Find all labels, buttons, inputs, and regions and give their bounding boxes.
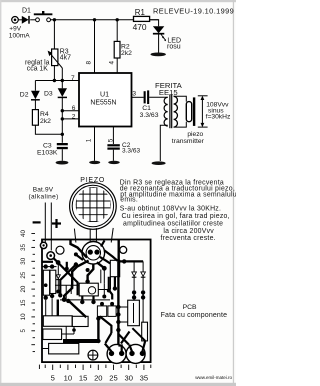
diagonal trace to transistors bbox=[100, 316, 130, 344]
small diode symbol left bbox=[56, 275, 60, 294]
wire pin2 bbox=[62, 118, 79, 120]
svg-text:amplitudinea oscilatiilor cre: amplitudinea oscilatiilor creste bbox=[123, 220, 223, 227]
mounting hole crosshair bbox=[88, 350, 98, 360]
svg-text:+9V: +9V bbox=[9, 26, 21, 33]
wire secondary to piezo top bbox=[174, 96, 187, 101]
pad mid bbox=[74, 262, 78, 266]
piezo disc holder lines bbox=[74, 228, 113, 243]
svg-text:PCB: PCB bbox=[183, 304, 197, 311]
svg-text:5: 5 bbox=[108, 138, 115, 142]
svg-text:(alkaline): (alkaline) bbox=[29, 193, 59, 200]
resistor footprint left B bbox=[50, 270, 56, 316]
switch S1 bbox=[34, 11, 53, 22]
transformer secondary winding bbox=[174, 96, 178, 127]
trace piezo to top edge bbox=[71, 240, 88, 258]
svg-text:Bat.9V: Bat.9V bbox=[33, 186, 54, 193]
svg-text:NE555N: NE555N bbox=[90, 100, 116, 107]
wire R1 to LED bbox=[150, 20, 159, 26]
ground C3 bbox=[56, 161, 69, 165]
svg-text:25: 25 bbox=[109, 373, 117, 382]
ground transformer bbox=[152, 161, 166, 165]
minus sign bbox=[33, 221, 41, 223]
svg-text:40: 40 bbox=[20, 230, 27, 237]
svg-text:2k2: 2k2 bbox=[40, 118, 51, 125]
trace right horizontal bbox=[117, 260, 143, 262]
svg-text:frecventa creste.: frecventa creste. bbox=[161, 235, 216, 242]
svg-text:D2: D2 bbox=[20, 92, 29, 99]
resistor footprint bottom row2 bbox=[43, 329, 62, 340]
wire terminal to D1 bbox=[18, 19, 22, 21]
svg-text:Fata cu componente: Fata cu componente bbox=[161, 312, 228, 319]
bottom ruler numbers bbox=[51, 373, 149, 382]
svg-text:15: 15 bbox=[20, 299, 27, 306]
svg-text:S-au obtinut 108Vvv la 30KHz.: S-au obtinut 108Vvv la 30KHz. bbox=[120, 205, 221, 212]
wire pin5 bbox=[112, 127, 114, 145]
junction R3 bottom bbox=[53, 79, 56, 82]
page border right bbox=[233, 0, 234, 386]
svg-text:6: 6 bbox=[72, 105, 76, 112]
diagonal trace right low bbox=[132, 328, 145, 341]
svg-text:3.3/63: 3.3/63 bbox=[122, 148, 140, 155]
op-amp U1 NE555N box bbox=[79, 73, 132, 127]
wire D1 to switch bbox=[30, 19, 35, 21]
thin wires mid bbox=[55, 270, 111, 290]
junction pin6 bbox=[61, 109, 64, 112]
wire R3 drop bbox=[53, 20, 55, 49]
svg-text:la circa 200Vvv: la circa 200Vvv bbox=[163, 228, 214, 235]
svg-text:5: 5 bbox=[20, 329, 27, 333]
wire pin3 bbox=[132, 96, 144, 98]
svg-text:transmitter: transmitter bbox=[172, 138, 205, 145]
svg-text:4: 4 bbox=[108, 61, 115, 65]
junction rail/R2 bbox=[116, 18, 119, 21]
capacitor C3 bbox=[57, 143, 68, 161]
bottom ruler ticks bbox=[39, 365, 150, 370]
plus sign bbox=[52, 219, 61, 228]
wire diode column left bbox=[57, 264, 59, 292]
svg-text:8: 8 bbox=[86, 61, 93, 65]
svg-text:piezo: piezo bbox=[187, 131, 203, 138]
explanatory paragraph bbox=[120, 180, 239, 243]
small footprint squares bbox=[97, 302, 116, 317]
terminal +9V bbox=[12, 17, 19, 24]
pads bottom left bbox=[66, 299, 70, 303]
resistor R1 bbox=[134, 16, 150, 21]
wire D3 to C3 bbox=[61, 98, 63, 143]
pad battery plus bbox=[47, 252, 55, 260]
left ruler ticks bbox=[31, 234, 35, 352]
svg-text:1: 1 bbox=[86, 138, 93, 142]
page border top bbox=[0, 0, 236, 2]
svg-text:rosu: rosu bbox=[167, 44, 181, 51]
pad left of piezo circle bbox=[74, 252, 78, 256]
resistor R4 bbox=[32, 110, 38, 126]
resistor footprint bottom row3 bbox=[49, 343, 79, 354]
vertical trace with pads bbox=[116, 261, 120, 345]
wire pin4 bbox=[116, 58, 118, 73]
capacitor C1 bbox=[144, 90, 168, 104]
svg-text:RELEVEU-19.10.1999: RELEVEU-19.10.1999 bbox=[153, 7, 234, 16]
diode D1 bbox=[22, 16, 29, 24]
measure arrow 108Vvv bbox=[198, 96, 208, 127]
pad battery minus bbox=[40, 242, 46, 248]
piezo transducer element bbox=[186, 102, 191, 122]
PCB board outline bbox=[42, 240, 151, 363]
svg-text:30: 30 bbox=[20, 257, 27, 264]
ground LED bbox=[151, 53, 166, 57]
page border left bbox=[0, 0, 1, 386]
ground pin1 bbox=[89, 161, 100, 164]
hole top left bbox=[56, 246, 64, 254]
left ruler numbers bbox=[20, 230, 27, 333]
wire D3 branch bbox=[61, 81, 63, 89]
transistor footprint circle left bbox=[107, 344, 126, 363]
svg-text:f=30kHz: f=30kHz bbox=[206, 114, 231, 121]
pad on trace bbox=[122, 259, 126, 263]
piezo connector footprint bbox=[82, 242, 105, 265]
svg-text:4k7: 4k7 bbox=[60, 54, 71, 61]
footprint rect right low bbox=[142, 322, 148, 341]
resistor footprint bottom row1 bbox=[43, 316, 72, 327]
trace piezo to rect bbox=[100, 257, 110, 264]
svg-text:U1: U1 bbox=[100, 90, 109, 98]
svg-text:10: 10 bbox=[20, 313, 27, 320]
wire pin6 bbox=[62, 110, 79, 112]
svg-text:15: 15 bbox=[79, 373, 87, 382]
diode footprint right A bbox=[132, 261, 137, 299]
transformer primary winding bbox=[164, 97, 168, 126]
svg-text:5: 5 bbox=[51, 373, 55, 382]
svg-text:D3: D3 bbox=[44, 90, 53, 97]
wire primary bottom to ground bbox=[160, 125, 167, 161]
transformer core bbox=[170, 94, 172, 128]
svg-text:EE15: EE15 bbox=[159, 88, 178, 97]
svg-text:R1: R1 bbox=[135, 8, 145, 17]
footprint rect mid right bbox=[110, 260, 119, 276]
svg-text:E103K: E103K bbox=[37, 150, 58, 157]
page border bottom bbox=[0, 383, 236, 386]
extra pads center bbox=[113, 286, 117, 290]
battery wire plus bbox=[50, 203, 52, 251]
thin links vertical trace to rect bbox=[118, 307, 127, 322]
wire pin7 horizontal bbox=[35, 80, 79, 82]
wire R2 top bbox=[116, 20, 118, 42]
potentiometer R3 bbox=[48, 49, 63, 81]
svg-text:20: 20 bbox=[94, 373, 102, 382]
trace piezo to pad right bbox=[97, 262, 107, 283]
svg-text:25: 25 bbox=[20, 271, 27, 278]
svg-text:10: 10 bbox=[64, 373, 72, 382]
junction R3 wiper bbox=[61, 79, 64, 82]
trace cross B bbox=[58, 265, 76, 298]
trace piezo to right vertical bbox=[67, 250, 118, 268]
LED rosu bbox=[153, 26, 166, 52]
thin wires top of footprints bbox=[42, 266, 57, 268]
transistor footprint circle right bbox=[126, 344, 145, 363]
junction rail/pin8 bbox=[93, 18, 96, 21]
wire secondary to piezo bottom bbox=[174, 122, 187, 127]
extra traces left edge bbox=[43, 241, 105, 262]
diode D2 bbox=[31, 91, 40, 110]
wire D2 branch top bbox=[34, 81, 36, 91]
resistor footprint left A bbox=[43, 270, 49, 316]
wire pin1 bbox=[94, 127, 96, 161]
capacitor C2 bbox=[107, 144, 119, 161]
svg-text:30: 30 bbox=[124, 373, 132, 382]
extra traces center bbox=[82, 277, 115, 302]
thin wires bottom left bbox=[42, 326, 74, 348]
svg-text:20: 20 bbox=[20, 285, 27, 292]
junction C3 node bbox=[61, 133, 64, 136]
svg-text:35: 35 bbox=[20, 243, 27, 250]
thick bar trace bottom bbox=[63, 339, 100, 343]
junction pin2 bbox=[61, 117, 64, 120]
trace top right vertical bbox=[117, 240, 119, 261]
junction rail/R3 bbox=[53, 18, 56, 21]
battery wire minus bbox=[44, 203, 46, 244]
piezo plate bbox=[193, 97, 195, 126]
traces into transistor pads bbox=[105, 341, 145, 352]
resistor footprint bottom row1b bbox=[72, 316, 88, 326]
pads footprint tops bbox=[44, 264, 48, 268]
svg-text:emis.: emis. bbox=[120, 197, 138, 204]
svg-text:2k2: 2k2 bbox=[121, 50, 132, 57]
svg-text:3.3/63: 3.3/63 bbox=[140, 112, 159, 119]
trace cross A bbox=[59, 264, 78, 296]
svg-text:cca 1K: cca 1K bbox=[27, 66, 48, 73]
svg-text:470: 470 bbox=[133, 22, 147, 32]
wire top rail bbox=[51, 19, 159, 21]
svg-text:3: 3 bbox=[132, 91, 136, 98]
wire R4 to C3 node bbox=[35, 125, 62, 134]
resistor R2 bbox=[114, 41, 120, 58]
footprint rect right mid bbox=[128, 300, 140, 326]
svg-text:2: 2 bbox=[72, 113, 76, 120]
svg-text:7: 7 bbox=[71, 75, 75, 82]
IC footprint rect bbox=[79, 283, 98, 296]
piezo leads to PCB bbox=[90, 228, 96, 249]
diode footprint right B bbox=[141, 261, 146, 322]
diode D3 bbox=[58, 88, 67, 97]
wire pin8 bbox=[94, 20, 96, 73]
svg-text:Cu iesirea in gol, fara trad p: Cu iesirea in gol, fara trad piezo, bbox=[122, 213, 230, 220]
piezo disc bbox=[70, 183, 117, 230]
extra junction dots bbox=[44, 283, 48, 287]
hole top right bbox=[120, 246, 127, 253]
svg-text:100mA: 100mA bbox=[9, 33, 30, 40]
svg-text:D1: D1 bbox=[22, 7, 31, 14]
trace from plus pad bbox=[53, 258, 60, 265]
svg-text:www.emil-matei.ro: www.emil-matei.ro bbox=[195, 375, 232, 380]
extra thin wires center bbox=[60, 283, 110, 300]
trace bottom left risers bbox=[58, 300, 99, 340]
trace piezo center down bbox=[85, 264, 93, 284]
ground C2 bbox=[108, 161, 120, 164]
svg-text:35: 35 bbox=[140, 373, 148, 382]
trace bundle piezo down-left bbox=[62, 261, 89, 302]
